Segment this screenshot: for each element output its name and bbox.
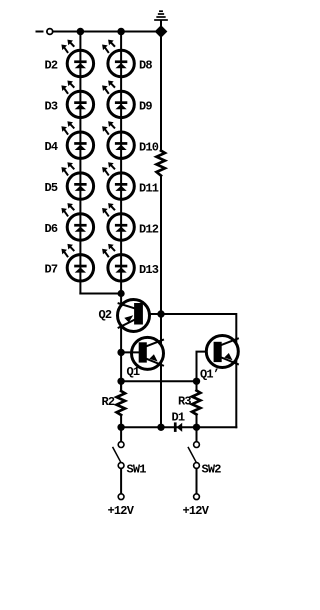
svg-text:+12V: +12V — [183, 504, 210, 518]
svg-text:Q1: Q1 — [127, 365, 140, 379]
wire left bus below R2 to SW1 — [120, 415, 122, 442]
svg-text:SW2: SW2 — [202, 463, 222, 477]
junction node D1 cathode — [157, 424, 164, 431]
wire right LED column / left bus — [120, 32, 122, 392]
resistor R2 — [117, 391, 125, 415]
switch SW1 — [113, 442, 124, 500]
transistor Q1 (NPN) — [132, 337, 164, 369]
LED D6 — [61, 203, 93, 240]
svg-text:Q1’: Q1’ — [200, 368, 219, 382]
LED D3 — [61, 81, 93, 118]
junction node top rail / left column — [77, 28, 85, 36]
junction node R2 top — [117, 378, 124, 385]
wire R3 bottom stem — [196, 415, 198, 428]
junction node top rail / ground bus — [155, 25, 168, 38]
svg-text:D3: D3 — [45, 99, 58, 113]
LED D8 — [102, 40, 134, 77]
svg-text:D8: D8 — [139, 58, 152, 72]
svg-text:D6: D6 — [45, 222, 58, 236]
svg-text:R3: R3 — [178, 395, 191, 409]
switch SW2 — [188, 427, 199, 499]
diode D1 — [174, 422, 182, 432]
minus terminal label — [37, 31, 43, 33]
LED D5 — [61, 162, 93, 199]
wire Q1-prime base — [197, 352, 216, 382]
junction node Q2 base — [157, 310, 164, 317]
svg-text:D5: D5 — [45, 181, 58, 195]
junction node R2 bottom / SW1 — [117, 424, 124, 431]
svg-text:D10: D10 — [139, 141, 159, 155]
LED D4 — [61, 121, 93, 158]
input terminal (open circle) — [47, 29, 53, 35]
junction node top rail / right column — [117, 28, 125, 36]
svg-text:Q2: Q2 — [99, 308, 112, 322]
svg-text:R2: R2 — [102, 395, 115, 409]
wire left LED column — [79, 32, 81, 294]
svg-text:D11: D11 — [139, 182, 159, 196]
wire ground bus upper — [160, 32, 162, 151]
transistor Q2 (PNP) — [118, 300, 150, 332]
ground — [155, 11, 167, 20]
wire Q1 base — [121, 351, 139, 353]
wire base rail y381 — [121, 380, 196, 382]
wire bottom rail — [121, 426, 236, 428]
resistor R3 — [192, 391, 200, 415]
LED D12 — [102, 203, 134, 240]
svg-text:SW1: SW1 — [127, 463, 147, 477]
svg-text:D13: D13 — [139, 263, 159, 277]
transistor Q1-prime (NPN) — [206, 336, 238, 368]
junction node LED columns join — [118, 290, 125, 297]
LED D13 — [102, 244, 134, 281]
wire R3 top stem — [196, 381, 198, 390]
svg-text:+12V: +12V — [108, 504, 135, 518]
svg-text:D7: D7 — [45, 263, 58, 277]
svg-text:D4: D4 — [45, 140, 58, 154]
svg-text:D2: D2 — [45, 58, 58, 72]
wire top rail — [53, 31, 161, 33]
junction node Q1 base — [117, 349, 124, 356]
svg-text:D9: D9 — [139, 99, 152, 113]
ground stem — [160, 21, 162, 32]
wire ground bus lower — [160, 176, 162, 428]
wire Q2 base to junction — [139, 313, 161, 315]
LED D7 — [61, 244, 93, 281]
LED D9 — [102, 81, 134, 118]
wire Q2 base junction to right bus — [161, 314, 236, 427]
wire elbow D7 to junction — [80, 293, 121, 295]
junction node D1 anode / R3 bottom / SW2 — [193, 424, 200, 431]
junction node R3 top / Q1-prime base — [193, 378, 200, 385]
svg-text:D1: D1 — [172, 410, 185, 424]
resistor R1 (unlabeled, on ground bus) — [157, 151, 165, 176]
LED D11 — [102, 162, 134, 199]
LED D2 — [61, 40, 93, 77]
wire R2 top stem — [120, 381, 122, 391]
svg-text:D12: D12 — [139, 222, 159, 236]
LED D10 — [102, 121, 134, 158]
